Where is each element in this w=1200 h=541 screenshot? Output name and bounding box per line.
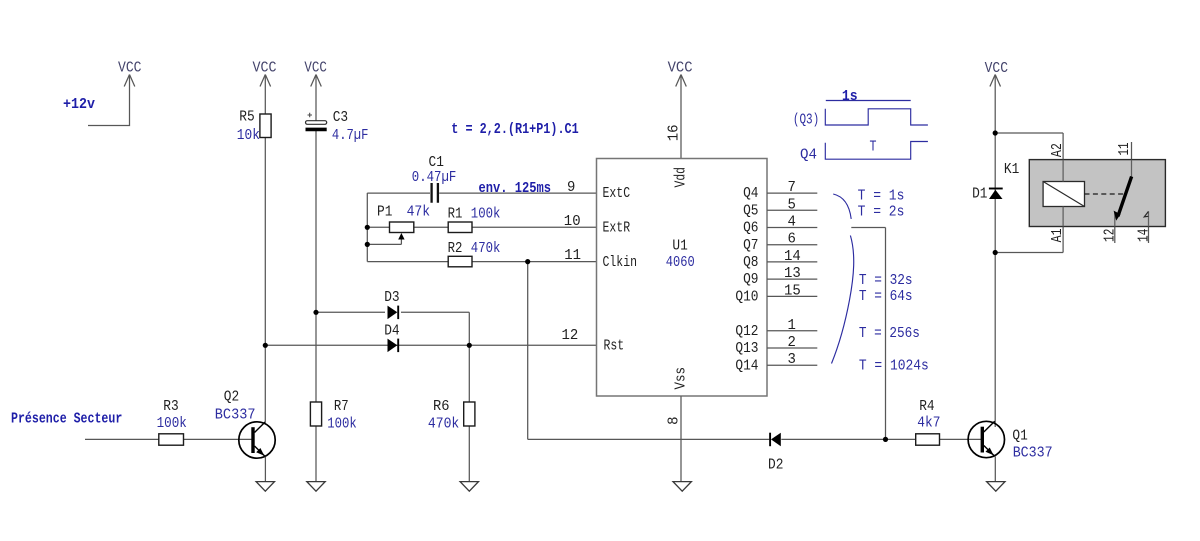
- svg-text:4: 4: [788, 214, 796, 231]
- svg-text:4.7µF: 4.7µF: [332, 127, 369, 144]
- svg-text:+12v: +12v: [63, 96, 95, 113]
- svg-text:D2: D2: [768, 457, 783, 474]
- svg-text:47k: 47k: [407, 204, 431, 221]
- svg-text:C3: C3: [333, 109, 348, 126]
- svg-text:VCC: VCC: [985, 60, 1008, 77]
- svg-text:VCC: VCC: [668, 60, 693, 77]
- svg-text:Rst: Rst: [604, 337, 625, 354]
- svg-text:T = 32s: T = 32s: [859, 272, 913, 289]
- svg-text:T = 1024s: T = 1024s: [859, 357, 929, 374]
- svg-text:D1: D1: [972, 186, 987, 203]
- svg-text:100k: 100k: [471, 206, 501, 223]
- svg-text:Présence Secteur: Présence Secteur: [11, 411, 122, 428]
- svg-text:(Q3): (Q3): [793, 112, 819, 129]
- svg-text:11: 11: [1116, 143, 1133, 156]
- svg-text:R2: R2: [448, 240, 463, 257]
- svg-text:1s: 1s: [842, 88, 858, 105]
- svg-text:0.47µF: 0.47µF: [412, 169, 457, 186]
- svg-text:Q10: Q10: [735, 289, 758, 306]
- svg-text:3: 3: [788, 351, 796, 368]
- svg-text:A1: A1: [1049, 228, 1066, 242]
- svg-text:Q13: Q13: [735, 340, 758, 357]
- svg-text:BC337: BC337: [1013, 444, 1053, 461]
- svg-text:D3: D3: [384, 289, 399, 306]
- svg-text:14: 14: [784, 248, 801, 265]
- svg-text:D4: D4: [384, 323, 399, 340]
- svg-text:12: 12: [1102, 229, 1119, 242]
- svg-text:Vdd: Vdd: [673, 167, 690, 188]
- svg-text:R4: R4: [919, 398, 934, 415]
- svg-text:Q12: Q12: [735, 323, 758, 340]
- svg-text:11: 11: [564, 247, 581, 264]
- svg-text:ExtR: ExtR: [603, 219, 631, 236]
- svg-text:1: 1: [788, 317, 796, 334]
- svg-text:12: 12: [562, 327, 579, 344]
- svg-text:100k: 100k: [157, 415, 187, 432]
- svg-text:R5: R5: [239, 109, 254, 126]
- svg-text:5: 5: [788, 196, 796, 213]
- svg-text:VCC: VCC: [253, 60, 277, 77]
- svg-text:Q4: Q4: [743, 185, 758, 202]
- svg-text:P1: P1: [377, 204, 392, 221]
- svg-text:15: 15: [784, 282, 801, 299]
- svg-text:Q7: Q7: [743, 237, 758, 254]
- svg-text:Q2: Q2: [224, 389, 239, 406]
- svg-text:100k: 100k: [327, 416, 357, 433]
- svg-text:T = 2s: T = 2s: [858, 204, 905, 221]
- svg-text:Q8: Q8: [743, 254, 758, 271]
- svg-text:T = 64s: T = 64s: [859, 288, 913, 305]
- svg-text:T = 1s: T = 1s: [858, 187, 905, 204]
- svg-text:7: 7: [788, 179, 796, 196]
- svg-text:4k7: 4k7: [917, 415, 940, 432]
- svg-text:Q9: Q9: [743, 271, 758, 288]
- svg-text:14: 14: [1136, 229, 1153, 242]
- svg-text:ExtC: ExtC: [603, 185, 631, 202]
- svg-text:Q4: Q4: [800, 147, 817, 164]
- svg-text:Q5: Q5: [743, 202, 758, 219]
- svg-text:T: T: [870, 139, 877, 156]
- svg-text:Q6: Q6: [743, 220, 758, 237]
- svg-text:10k: 10k: [237, 127, 260, 144]
- svg-text:U1: U1: [672, 238, 687, 255]
- svg-text:R3: R3: [163, 398, 178, 415]
- svg-text:13: 13: [784, 265, 801, 282]
- svg-text:Q1: Q1: [1012, 428, 1027, 445]
- svg-text:6: 6: [788, 231, 796, 248]
- svg-text:BC337: BC337: [215, 407, 256, 424]
- svg-text:Clkin: Clkin: [603, 254, 638, 271]
- svg-text:470k: 470k: [471, 240, 501, 257]
- svg-text:Vss: Vss: [673, 367, 690, 390]
- svg-text:4060: 4060: [666, 254, 695, 271]
- svg-text:R7: R7: [334, 398, 349, 415]
- svg-text:10: 10: [564, 213, 581, 230]
- svg-text:t = 2,2.(R1+P1).C1: t = 2,2.(R1+P1).C1: [451, 121, 578, 138]
- svg-text:8: 8: [666, 416, 683, 424]
- svg-text:470k: 470k: [428, 416, 459, 433]
- svg-text:env. 125ms: env. 125ms: [479, 180, 552, 197]
- svg-text:9: 9: [567, 179, 575, 196]
- svg-text:R6: R6: [433, 398, 450, 415]
- svg-text:K1: K1: [1004, 161, 1019, 178]
- svg-text:VCC: VCC: [118, 60, 142, 77]
- svg-text:A2: A2: [1049, 143, 1066, 157]
- svg-text:16: 16: [666, 125, 683, 142]
- svg-text:Q14: Q14: [735, 357, 758, 374]
- svg-text:R1: R1: [448, 206, 463, 223]
- svg-text:T = 256s: T = 256s: [859, 325, 920, 342]
- svg-text:VCC: VCC: [304, 60, 327, 77]
- svg-text:2: 2: [788, 334, 796, 351]
